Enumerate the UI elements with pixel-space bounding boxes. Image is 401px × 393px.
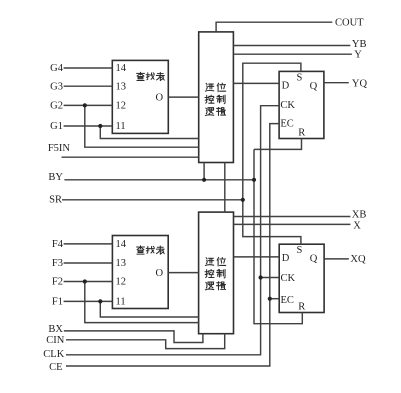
wire YB	[233, 45, 350, 47]
junction F1	[98, 299, 102, 303]
svg-text:S: S	[297, 245, 303, 256]
text 逻 (U4 label)	[205, 282, 213, 290]
svg-text:11: 11	[116, 121, 126, 132]
text 辑 (U3 label)	[216, 107, 225, 115]
svg-text:Q: Q	[310, 254, 318, 265]
svg-text:14: 14	[116, 239, 127, 250]
svg-text:CK: CK	[280, 100, 295, 111]
text 控 (U4 label)	[205, 269, 214, 277]
svg-text:F1: F1	[52, 297, 63, 308]
wire BY	[64, 179, 254, 181]
text 查 (U2 label)	[137, 246, 145, 254]
text 表 (U1 label)	[156, 72, 164, 80]
wire F2 to carry logic pin	[85, 282, 199, 323]
svg-text:D: D	[282, 253, 290, 264]
wire G1 to carry logic pin	[100, 126, 198, 139]
junction BY at carry box drop	[202, 178, 206, 182]
wire SR	[62, 199, 243, 201]
wire Y	[233, 53, 352, 55]
wire R1 reset	[254, 139, 302, 150]
junction G2	[83, 103, 87, 107]
wire CIN	[66, 334, 225, 349]
wire G3	[64, 85, 113, 87]
junction CLK at CK2	[259, 275, 263, 279]
wire G4	[64, 67, 113, 69]
svg-text:CIN: CIN	[46, 335, 65, 346]
svg-text:13: 13	[116, 81, 127, 92]
text 找 (U1 label)	[146, 73, 154, 80]
svg-text:X: X	[353, 221, 361, 232]
wire G1	[64, 125, 113, 127]
flip-flop U5 box	[279, 71, 324, 138]
wire X	[234, 223, 351, 225]
wire F3	[64, 262, 113, 264]
svg-text:12: 12	[116, 277, 127, 288]
lookup table U1 box	[112, 60, 168, 133]
svg-text:F2: F2	[52, 277, 63, 288]
svg-text:11: 11	[116, 297, 126, 308]
wire CLK net	[66, 106, 279, 355]
wire G2 to carry logic pin	[85, 105, 199, 147]
svg-text:BX: BX	[48, 324, 63, 335]
svg-text:F4: F4	[52, 239, 64, 250]
text 位 (U4 label)	[217, 257, 226, 266]
svg-text:YQ: YQ	[352, 79, 368, 90]
svg-text:R: R	[298, 302, 305, 313]
svg-text:CE: CE	[49, 362, 62, 373]
svg-text:COUT: COUT	[335, 18, 364, 29]
text 表 (U2 label)	[156, 246, 164, 254]
carry control logic U4 box	[199, 212, 234, 334]
svg-text:S: S	[297, 72, 303, 83]
wire CE net	[66, 124, 279, 366]
svg-text:Y: Y	[354, 50, 362, 61]
wire F5IN	[62, 156, 199, 158]
wire CK2 tap	[261, 277, 280, 279]
svg-text:F5IN: F5IN	[48, 143, 71, 154]
wire F1	[64, 300, 113, 302]
svg-text:SR: SR	[49, 194, 62, 205]
text 找 (U2 label)	[146, 246, 154, 253]
svg-text:Q: Q	[310, 81, 318, 92]
junction F2	[83, 279, 87, 283]
svg-text:D: D	[282, 80, 290, 91]
text 进 (U3 label)	[205, 83, 213, 91]
text 逻 (U3 label)	[205, 108, 213, 116]
svg-text:EC: EC	[280, 119, 293, 130]
wire BX	[64, 331, 203, 343]
wire D1	[233, 82, 279, 84]
svg-text:EC: EC	[281, 295, 294, 306]
wire F1 to carry logic pin	[100, 301, 198, 317]
wire BY net to R pins	[254, 149, 302, 323]
wire SR net to S pins	[243, 63, 301, 244]
svg-text:G1: G1	[50, 121, 63, 132]
junction CE at EC2	[268, 297, 272, 301]
wire carry chain	[224, 163, 226, 213]
wire EC2 tap	[270, 298, 279, 300]
svg-text:G3: G3	[50, 81, 63, 92]
wire G2	[64, 104, 113, 106]
svg-text:BY: BY	[48, 172, 63, 183]
junction BY at R net	[252, 178, 256, 182]
svg-text:YB: YB	[352, 39, 367, 50]
text 辑 (U4 label)	[216, 282, 225, 290]
svg-text:14: 14	[116, 63, 127, 74]
svg-text:G2: G2	[50, 101, 63, 112]
svg-text:G4: G4	[50, 63, 64, 74]
wire BY to carry logic 1	[203, 163, 205, 180]
junction G1	[98, 124, 102, 128]
svg-text:XQ: XQ	[350, 254, 366, 265]
lookup table U2 box	[112, 236, 168, 309]
wire D2	[234, 256, 280, 258]
text 进 (U4 label)	[205, 258, 213, 266]
svg-text:F3: F3	[52, 258, 63, 269]
wire F2	[64, 281, 113, 283]
junction SR at S net	[241, 198, 245, 202]
wire O2 output to carry logic	[168, 272, 198, 274]
carry control logic U3 box	[199, 32, 234, 163]
text 查 (U1 label)	[137, 72, 145, 80]
svg-text:CK: CK	[281, 273, 296, 284]
wire XB	[234, 216, 351, 218]
svg-text:CLK: CLK	[43, 349, 64, 360]
svg-text:XB: XB	[352, 209, 367, 220]
wire YQ	[324, 82, 349, 84]
svg-text:O: O	[156, 268, 164, 279]
text 制 (U4 label)	[217, 269, 225, 278]
svg-text:13: 13	[116, 258, 127, 269]
flip-flop U6 box	[279, 244, 324, 312]
text 制 (U3 label)	[217, 95, 225, 104]
wire COUT	[216, 22, 332, 32]
text 位 (U3 label)	[217, 83, 226, 92]
wire O1 output to carry logic	[168, 96, 198, 98]
svg-text:O: O	[156, 93, 164, 104]
svg-text:12: 12	[116, 101, 127, 112]
wire F4	[64, 243, 113, 245]
text 控 (U3 label)	[205, 95, 214, 103]
svg-text:R: R	[298, 128, 305, 139]
wire XQ	[324, 258, 349, 260]
